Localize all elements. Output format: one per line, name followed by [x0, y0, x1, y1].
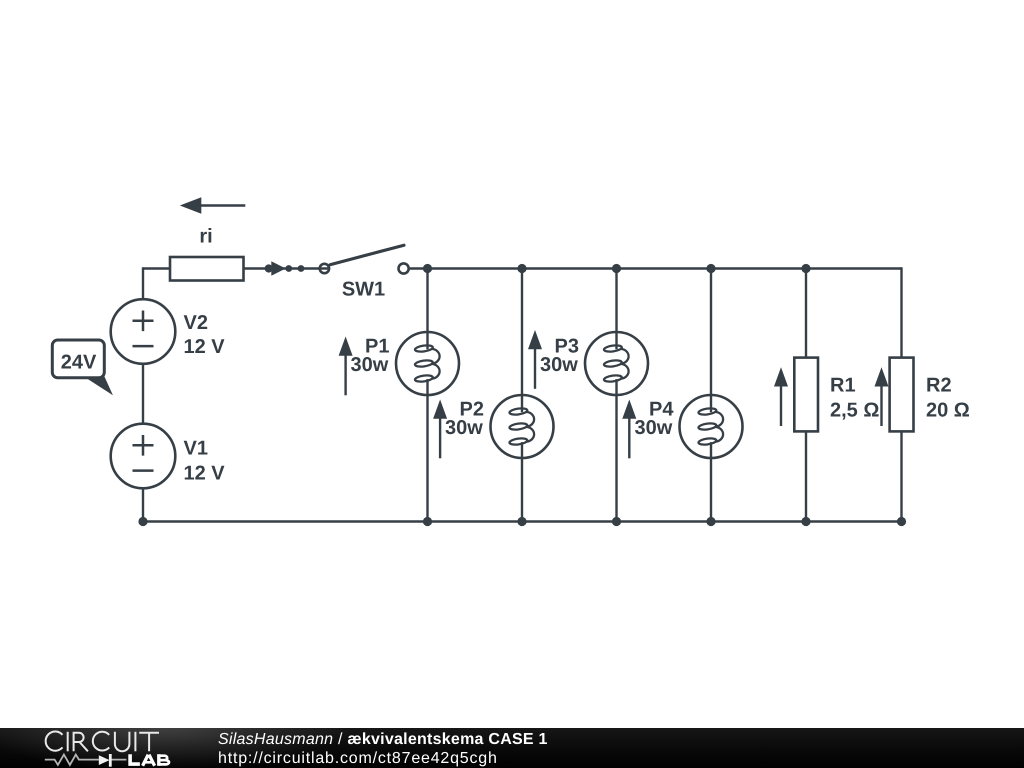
resistor R1 [794, 358, 818, 432]
arrow for R2 [875, 367, 889, 426]
wire: R1 branch lower [805, 430, 807, 522]
node bottom P1 [423, 517, 432, 526]
svg-text:V2: V2 [184, 312, 208, 334]
footer url line [218, 750, 498, 768]
wire: P3 branch lower [615, 395, 617, 522]
svg-text:30w: 30w [540, 354, 578, 376]
wire: right drop to R2 [900, 267, 902, 359]
wire: R1 branch upper [805, 269, 807, 360]
arrow for R1 [774, 367, 788, 426]
svg-text:ri: ri [199, 226, 212, 248]
wire: bottom rail [143, 520, 902, 522]
wire: P1 branch lower [426, 395, 428, 522]
wire: P2 branch lower [521, 458, 523, 522]
wire: between V2 and V1 [142, 364, 144, 424]
wire: P1 branch upper [426, 269, 428, 333]
lamp P1 [396, 332, 459, 395]
switch SW1 [320, 245, 409, 273]
svg-text:30w: 30w [445, 417, 483, 439]
voltage source V2 [111, 299, 176, 364]
24V callout bubble [52, 340, 113, 395]
svg-text:20 Ω: 20 Ω [926, 399, 970, 421]
resistor ri [170, 257, 244, 281]
svg-text:30w: 30w [635, 417, 673, 439]
node bottom left [138, 517, 147, 526]
wire: below R2 to bottom rail [900, 430, 902, 522]
svg-text:30w: 30w [351, 354, 389, 376]
wire: resistor ri to switch [237, 267, 329, 269]
svg-text:V1: V1 [184, 438, 208, 460]
svg-text:R1: R1 [830, 375, 856, 397]
wire: P3 branch upper [615, 269, 617, 333]
wire: P4 branch lower [710, 458, 712, 522]
wire: below V1 to bottom rail [142, 488, 144, 521]
wire: left column vertical above V2 [142, 267, 144, 299]
node bottom R1 [801, 517, 810, 526]
junction node dots [138, 264, 906, 526]
CircuitLab logo [0, 728, 180, 768]
svg-text:24V: 24V [61, 352, 97, 374]
node top R1 [801, 264, 810, 273]
svg-text:SW1: SW1 [342, 279, 385, 301]
arrow for P2 [433, 400, 447, 459]
wire: left column top to resistor [143, 267, 170, 269]
node top P1 [423, 264, 432, 273]
svg-text:2,5 Ω: 2,5 Ω [830, 399, 879, 421]
arrow for P4 [622, 400, 636, 459]
wire: top rail from switch to right edge [410, 267, 902, 269]
arrow for P3 [528, 330, 542, 389]
current probe arrow with dots on wire [265, 261, 305, 276]
svg-text:R2: R2 [926, 375, 952, 397]
arrow for P1 [339, 337, 353, 396]
lamp P2 [491, 395, 554, 458]
node bottom P2 [517, 517, 526, 526]
node bottom R2 [897, 517, 906, 526]
lamp P3 [585, 332, 648, 395]
lamp P4 [680, 395, 743, 458]
resistor R2 [890, 358, 914, 432]
svg-text:12 V: 12 V [184, 336, 226, 358]
node bottom P3 [612, 517, 621, 526]
node top P3 [612, 264, 621, 273]
node top P2 [517, 264, 526, 273]
node bottom P4 [706, 517, 715, 526]
node top P4 [706, 264, 715, 273]
footer bar [0, 728, 1024, 768]
wire: P2 branch upper [521, 269, 523, 396]
svg-text:12 V: 12 V [184, 462, 226, 484]
wire: P4 branch upper [710, 269, 712, 396]
voltage source V1 [111, 424, 176, 489]
footer title line [218, 731, 548, 749]
current direction arrow (left, above ri) [180, 197, 246, 214]
